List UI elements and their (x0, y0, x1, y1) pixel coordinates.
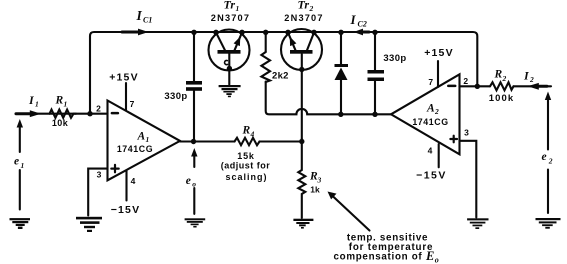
wire Tr2 base down to R4/R3 node (301, 54, 303, 139)
capacitor C1 330p left plates (186, 81, 202, 91)
node dot rail/2k2 (263, 30, 268, 35)
node e1 measurement arrow and line (19, 126, 21, 210)
capacitor C2 330p right: bottom lead (374, 81, 376, 114)
svg-text:100k: 100k (489, 93, 515, 104)
svg-text:e: e (542, 151, 547, 163)
node dot rail/diode (338, 30, 343, 35)
svg-text:15k: 15k (237, 151, 255, 161)
svg-text:330p: 330p (164, 91, 187, 102)
node dot rail/Tr2 emitter (285, 30, 290, 35)
svg-text:1: 1 (35, 100, 39, 109)
capacitor C2 330p right plates (368, 70, 385, 81)
svg-text:−15V: −15V (111, 204, 141, 216)
ground at R3 (293, 219, 313, 229)
node dot rail/Tr1 emitter (239, 30, 244, 35)
node dot A1 output / e0 (191, 139, 196, 144)
ground at e1 (10, 218, 31, 229)
svg-text:compensation of: compensation of (334, 252, 423, 263)
svg-text:7: 7 (130, 99, 135, 109)
node e0 measurement arrow and line (193, 155, 195, 214)
current arrow I2 pointing left (538, 85, 547, 88)
svg-text:2N3707: 2N3707 (211, 13, 250, 23)
op-amp A2 minus sign (448, 85, 455, 88)
svg-text:1: 1 (21, 161, 25, 170)
svg-text:1: 1 (64, 100, 68, 109)
current arrow I1 on input wire (16, 112, 31, 115)
node dot R4/R3/Tr2 base (299, 139, 304, 144)
wire R4 right to node R3 (260, 140, 302, 142)
svg-text:7: 7 (428, 77, 433, 87)
transistor Tr1 inner c-mark (225, 60, 228, 64)
node dot Tr2 base at circle bottom (299, 67, 304, 72)
ground at Tr1 base (219, 85, 241, 97)
transistor Tr2 emitter arrowhead (290, 37, 297, 47)
svg-text:2: 2 (502, 74, 507, 83)
node dot A2 pin2 feedback (475, 84, 480, 89)
svg-text:2: 2 (96, 104, 101, 114)
svg-text:Tr: Tr (224, 0, 236, 12)
node dot diode / A2 output bus (338, 112, 343, 117)
transistor Tr2 circle (281, 29, 322, 70)
resistor R2 100k zigzag (490, 82, 514, 90)
node dot rail/Tr1 collector (213, 30, 218, 35)
op-amp A1 minus sign (112, 112, 118, 115)
svg-text:I: I (136, 8, 143, 23)
svg-text:C2: C2 (358, 20, 367, 29)
svg-text:I: I (28, 93, 35, 107)
svg-text:Tr: Tr (298, 0, 310, 12)
transistor Tr1 collector lead (left) (216, 33, 225, 51)
current arrow IC2 on rail pointing left (361, 31, 369, 34)
svg-text:1: 1 (236, 4, 240, 13)
wire A2 pin 2 to R2 left (460, 85, 491, 87)
svg-text:E: E (425, 249, 434, 263)
transistor Tr1 base bar (218, 50, 241, 54)
svg-text:4: 4 (428, 146, 433, 156)
diode D1 bottom lead (340, 80, 342, 114)
svg-text:o: o (192, 180, 196, 189)
svg-text:o: o (435, 255, 439, 264)
svg-text:I: I (350, 12, 357, 27)
svg-text:2: 2 (548, 157, 553, 166)
ground at A2 pin 3 (467, 218, 488, 229)
svg-text:3: 3 (317, 176, 322, 185)
wire A1 pin 4 -15V lead (125, 170, 127, 200)
svg-text:4: 4 (131, 176, 136, 186)
wire A2 pin 4 -15V lead (438, 144, 440, 167)
svg-text:1: 1 (146, 135, 150, 144)
svg-text:3: 3 (97, 170, 102, 180)
transistor Tr2 base bar (290, 50, 313, 54)
svg-text:+15V: +15V (424, 47, 454, 59)
svg-text:330p: 330p (383, 53, 406, 64)
svg-text:e: e (186, 175, 191, 187)
ground at e0 (185, 218, 206, 227)
svg-text:1741CG: 1741CG (117, 144, 153, 154)
ground at A1 pin 3 (76, 217, 102, 232)
svg-text:2: 2 (309, 4, 314, 13)
capacitor C1 330p left: bottom lead (193, 91, 195, 140)
diode D1 triangle (anode, pointing up) (335, 68, 348, 81)
resistor R1 10k zigzag (50, 110, 77, 118)
svg-text:10k: 10k (52, 118, 69, 128)
svg-text:2: 2 (463, 76, 468, 86)
op-amp A1 plus sign (111, 165, 118, 172)
svg-text:R: R (494, 68, 503, 80)
svg-text:2: 2 (434, 107, 439, 116)
ground at e2 (536, 218, 561, 229)
current arrow IC1 on rail (122, 31, 139, 34)
annotation arrow to R3 (332, 195, 370, 231)
svg-text:1k: 1k (310, 185, 320, 195)
node dot Tr1 base at circle bottom (227, 66, 232, 71)
svg-text:scaling): scaling) (225, 172, 267, 182)
wire R2 right to input e2 (514, 85, 552, 87)
node dot rail/Tr2 collector (311, 30, 316, 35)
wire A1 pin 7 +15V lead (125, 83, 127, 111)
svg-text:2N3707: 2N3707 (284, 13, 323, 23)
svg-text:A: A (137, 131, 146, 143)
svg-text:−15V: −15V (416, 170, 447, 182)
capacitor C1 330p left: top lead (193, 34, 195, 81)
wire A2 output bus (y=114) with hop over Tr2 base line, to 2k2 bottom corner (266, 82, 391, 115)
svg-text:2k2: 2k2 (272, 71, 289, 82)
wire top rail (summing node bus) with corners down to A1 pin2 node and A2 pin2 node (90, 32, 477, 114)
svg-text:e: e (14, 156, 19, 168)
wire A2 pin 3 to ground (460, 141, 477, 218)
svg-text:A: A (426, 102, 435, 114)
svg-text:C1: C1 (143, 16, 152, 25)
node dot rail/C1 (191, 30, 196, 35)
svg-text:(adjust for: (adjust for (221, 161, 271, 171)
op-amp A1 triangle (108, 101, 181, 181)
op-amp A2 plus sign (450, 136, 457, 143)
wire A2 pin 7 +15V lead (437, 61, 439, 87)
svg-text:+15V: +15V (109, 72, 139, 84)
wire A1 output to R4 left (180, 140, 235, 142)
diode D1 cathode bar (335, 64, 349, 67)
wire A1 pin 3 to ground (88, 169, 107, 216)
resistor R4 15k zigzag (235, 138, 260, 145)
svg-text:R: R (242, 125, 251, 137)
node dot rail/C2 (372, 30, 377, 35)
wire input e1 to A1 pin 2 (16, 113, 108, 115)
transistor Tr1 base lead down (228, 54, 230, 85)
transistor Tr2 emitter lead (left, with arrow) (288, 33, 296, 51)
resistor 2k2 zigzag vertical (261, 52, 270, 82)
capacitor C2 330p right: top lead (374, 34, 376, 70)
svg-text:1741CG: 1741CG (412, 117, 448, 127)
diode D1 top lead from rail (340, 34, 342, 64)
resistor 2k2 top lead from rail (265, 34, 267, 52)
svg-text:I: I (523, 69, 530, 83)
svg-text:2: 2 (529, 75, 534, 84)
svg-text:4: 4 (250, 130, 255, 139)
node dot A1 pin2 / R1 (87, 111, 92, 116)
transistor Tr1 circle (209, 30, 250, 71)
transistor Tr2 collector lead (right) (307, 33, 314, 51)
node dot C2 / A2 output bus (372, 112, 377, 117)
resistor R3 1k zigzag vertical with leads (298, 139, 305, 218)
node e2 measurement arrow and line (547, 98, 549, 213)
transistor Tr1 emitter lead (right, with arrow) (235, 33, 243, 51)
op-amp A2 triangle (pointing left) (391, 74, 460, 154)
svg-text:3: 3 (464, 127, 469, 137)
svg-text:R: R (55, 95, 64, 107)
transistor Tr1 emitter arrowhead (234, 37, 241, 47)
